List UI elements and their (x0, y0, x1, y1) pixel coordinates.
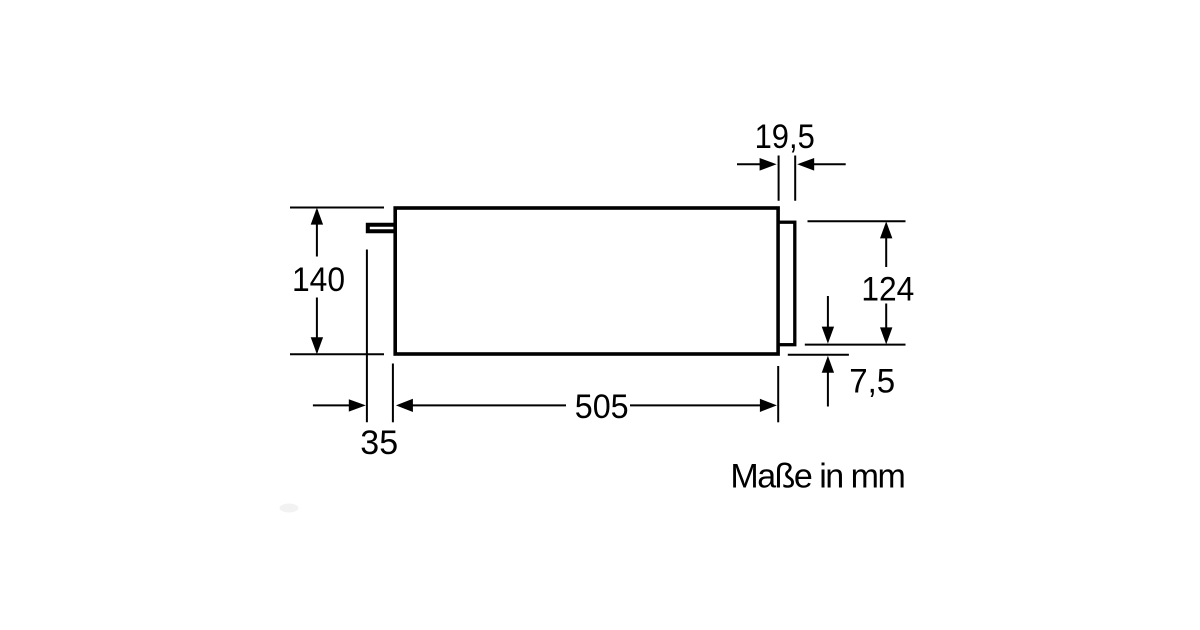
dimension line 505 with arrows (396, 399, 777, 412)
drawer body outline (395, 208, 778, 354)
svg-text:7,5: 7,5 (849, 362, 895, 400)
extension line bottom of 140 (290, 353, 384, 355)
svg-text:35: 35 (360, 424, 398, 462)
svg-text:505: 505 (575, 388, 629, 426)
svg-text:140: 140 (292, 261, 345, 299)
faint print artifact (280, 504, 299, 513)
extension lines for 19,5 (779, 156, 796, 201)
extension line below body right edge (777, 366, 779, 422)
dimension arrows 7,5 (822, 296, 834, 407)
extension line top of 140 (290, 207, 384, 209)
svg-text:124: 124 (861, 270, 914, 308)
svg-text:19,5: 19,5 (755, 118, 815, 156)
extension line bottom of 124 (door bottom) (805, 344, 906, 346)
handle (368, 225, 394, 232)
svg-text:Maße in mm: Maße in mm (730, 458, 904, 496)
extension line for 35 (handle left) (366, 250, 368, 423)
dimension arrows 19,5 (737, 158, 846, 171)
extension line top of 124 (808, 220, 906, 222)
extension line below body left edge (392, 364, 394, 423)
front panel (door) (778, 222, 795, 345)
dimension line 35 with arrow (313, 399, 366, 411)
extension line right of body bottom (788, 354, 849, 356)
dimension line 140 with arrows (311, 208, 323, 355)
dimension line 124 with arrows (880, 221, 892, 344)
